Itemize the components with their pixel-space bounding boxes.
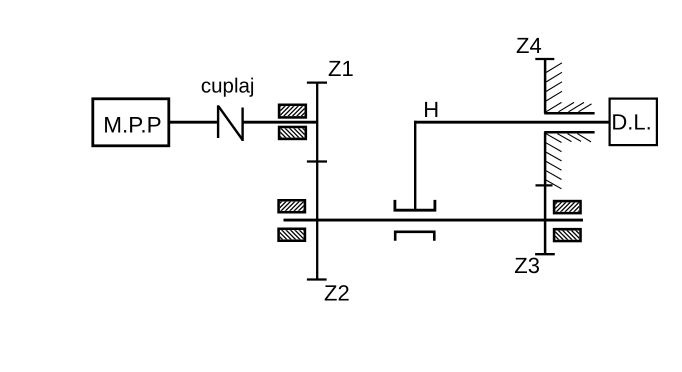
load box D.L. bbox=[610, 99, 657, 146]
gear line Z4 upper section bbox=[544, 59, 547, 113]
coupling right flange bbox=[241, 108, 243, 142]
carrier fork upper bracket bbox=[395, 200, 435, 210]
bearing shaft1 lower bbox=[279, 127, 306, 139]
gear Z4 top tick bbox=[535, 58, 554, 60]
wire shaft1 motor to coupling bbox=[170, 121, 218, 124]
gear Z3 bottom tick bbox=[535, 253, 555, 255]
wire output shaft to D.L. bbox=[414, 121, 610, 124]
mesh tick Z4-Z3 bbox=[536, 184, 553, 186]
gear Z2 bottom tick bbox=[307, 278, 327, 280]
mesh tick Z1-Z2 bbox=[307, 160, 327, 162]
carrier arm H vertical bbox=[414, 121, 416, 210]
bearing shaft2 right upper bbox=[554, 201, 580, 213]
motor box M.P.P bbox=[93, 99, 169, 146]
coupling left flange bbox=[217, 105, 219, 138]
svg-text:cuplaj: cuplaj bbox=[201, 75, 255, 98]
svg-text:H: H bbox=[423, 97, 439, 122]
gear Z1 top tick bbox=[307, 81, 327, 83]
bearing shaft2 right lower bbox=[554, 229, 580, 241]
bearing shaft2 left upper bbox=[279, 200, 305, 212]
housing hatch upper bbox=[546, 63, 592, 112]
gear line Z4-Z3 lower section bbox=[544, 132, 547, 254]
bearing shaft1 upper bbox=[279, 105, 306, 118]
carrier fork lower bracket bbox=[395, 232, 434, 241]
svg-text:D.L.: D.L. bbox=[611, 110, 651, 135]
housing wall lower ledge bbox=[544, 131, 594, 134]
svg-text:Z4: Z4 bbox=[516, 33, 542, 58]
wire shaft1 coupling to gear Z1 bbox=[243, 121, 318, 124]
svg-text:Z3: Z3 bbox=[514, 253, 540, 278]
wire shaft2 bbox=[284, 219, 584, 222]
gear line Z1-Z2 bbox=[316, 83, 318, 280]
bearing shaft2 left lower bbox=[279, 229, 305, 241]
housing wall upper ledge bbox=[544, 112, 594, 115]
housing hatch lower bbox=[546, 134, 591, 189]
svg-text:Z1: Z1 bbox=[328, 56, 354, 81]
svg-text:Z2: Z2 bbox=[324, 280, 350, 305]
coupling diagonal bbox=[219, 106, 243, 139]
svg-text:M.P.P: M.P.P bbox=[103, 112, 161, 137]
